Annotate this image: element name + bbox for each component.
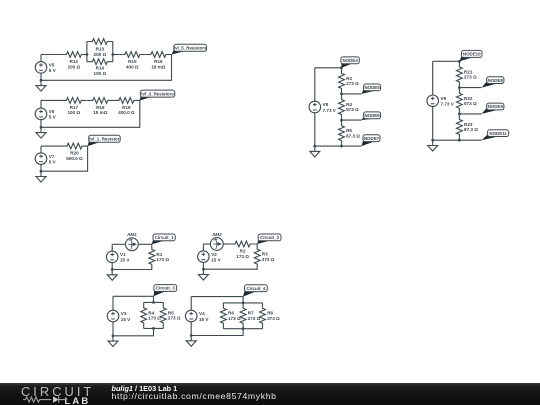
junction NODE5 (340, 93, 343, 96)
wire to NODE5 flag (342, 93, 362, 95)
svg-text:V2: V2 (211, 252, 217, 257)
svg-text:R2: R2 (240, 249, 246, 254)
resistor R13 (87, 39, 113, 57)
resistor R5 (Circuit_3) (160, 302, 180, 328)
junction V9 bottom (431, 139, 434, 142)
wire circuit 4 return (191, 329, 243, 336)
svg-text:100 Ω: 100 Ω (94, 71, 107, 76)
svg-text:NODE6: NODE6 (364, 113, 380, 118)
CircuitLab logo wordmark (21, 384, 94, 399)
svg-text:373 Ω: 373 Ω (262, 257, 275, 262)
svg-text:87.3 Ω: 87.3 Ω (464, 127, 478, 132)
ground circuit 1 (36, 80, 46, 91)
node split R13/R14 (86, 53, 89, 56)
ground right ladder (428, 140, 438, 151)
svg-text:7.73 V: 7.73 V (323, 108, 337, 113)
resistor R4 (339, 94, 359, 120)
voltage source V5 (35, 62, 56, 74)
wire R2 to corner (256, 243, 258, 245)
wire V1 leads (111, 244, 113, 269)
node flag Circuit_2 (257, 234, 281, 244)
resistor R2 (230, 241, 256, 259)
wire V8 bottom rail (315, 145, 362, 147)
resistor R5 (339, 120, 361, 146)
wire block to R15 (113, 54, 119, 56)
node flag NODE11 (482, 130, 509, 141)
svg-text:5 V: 5 V (49, 115, 57, 120)
svg-text:Circuit_2: Circuit_2 (260, 235, 280, 240)
resistor R21 (457, 61, 477, 87)
wire return right side circuit 3 (41, 146, 88, 171)
wire V8 top rail (315, 67, 342, 69)
footer title text (112, 384, 178, 393)
ground Circuit_1 (107, 270, 117, 281)
svg-text:Circuit_3: Circuit_3 (156, 286, 176, 291)
resistor R22 (457, 88, 477, 114)
svg-text:V6: V6 (49, 109, 55, 114)
wire V7 top to R20 (41, 145, 61, 147)
wire circuit 1 return (112, 244, 152, 270)
ground circuit 3 (36, 171, 46, 182)
svg-text:5 V: 5 V (49, 68, 57, 73)
resistor R4 (Circuit_3) (141, 302, 161, 328)
junction V5 bottom (40, 79, 43, 82)
svg-text:18 mΩ: 18 mΩ (151, 64, 165, 69)
node flag NODE6 (362, 112, 381, 120)
svg-text:NODE5: NODE5 (364, 85, 380, 90)
svg-text:NODE9: NODE9 (488, 104, 504, 109)
svg-text:NODE11: NODE11 (489, 131, 507, 136)
svg-text:15 V: 15 V (211, 257, 221, 262)
svg-text:V3: V3 (121, 311, 127, 316)
svg-text:V9: V9 (441, 96, 447, 101)
svg-text:15 V: 15 V (120, 258, 130, 263)
node flag NODE10 (459, 50, 482, 61)
resistor R7 (240, 303, 260, 329)
junction V7 bottom (40, 170, 43, 173)
wire V6 top to R17 (41, 99, 61, 101)
svg-text:273 Ω: 273 Ω (248, 316, 261, 321)
wire V6 leads (40, 100, 42, 127)
node flag lvl_5_Resistors (172, 44, 208, 54)
wire parallel block verticals (87, 42, 113, 62)
resistor R3 (339, 68, 359, 94)
junction NODE10 (458, 60, 461, 63)
wire return right side circuit 2 (41, 100, 140, 127)
node flag NODE5 (362, 84, 381, 94)
svg-text:NODE10: NODE10 (463, 52, 481, 57)
resistor R6 (221, 303, 241, 329)
svg-text:AM1: AM1 (126, 232, 137, 237)
svg-text:R18: R18 (96, 105, 105, 110)
junction V8 bottom (313, 145, 316, 148)
wire V4 top rail (191, 297, 243, 303)
svg-text:273 Ω: 273 Ω (464, 75, 477, 80)
wire V5 leads (40, 55, 42, 81)
wire to NODE8 flag (459, 87, 481, 89)
resistor R16 (145, 52, 171, 70)
svg-text:400.0 Ω: 400.0 Ω (118, 110, 135, 115)
resistor R12 (61, 52, 87, 70)
svg-text:V4: V4 (199, 311, 205, 316)
ground Circuit_2 (198, 269, 208, 280)
svg-text:NODE7: NODE7 (364, 136, 380, 141)
svg-text:R12: R12 (70, 59, 79, 64)
node flag lvl_3_Resistors (140, 90, 175, 100)
svg-text:NODE4: NODE4 (342, 58, 358, 63)
junction bracket top C3 (152, 301, 155, 304)
svg-text:573 Ω: 573 Ω (346, 107, 359, 112)
node flag NODE8 (482, 77, 504, 88)
svg-text:NODE8: NODE8 (488, 78, 504, 83)
wire V9 leads (432, 61, 434, 140)
ground Circuit_3 (108, 336, 118, 347)
node flag NODE7 (362, 135, 381, 146)
ground Circuit_4 (186, 336, 196, 347)
svg-text:87.3 Ω: 87.3 Ω (346, 133, 360, 138)
junction V3 bottom (112, 334, 115, 337)
svg-text:lvl_5_Resistors: lvl_5_Resistors (174, 45, 207, 50)
wire circuit 2 return (203, 244, 257, 270)
node flag NODE4 (341, 57, 359, 68)
wire R12 to parallel block (86, 54, 88, 56)
resistor R20 (61, 143, 87, 161)
svg-text:R17: R17 (70, 105, 79, 110)
svg-text:500.0 Ω: 500.0 Ω (66, 156, 83, 161)
node flag lvl_1_Resistor (88, 135, 121, 146)
wire V2 leads (202, 244, 204, 269)
wire circuit 3 return (113, 328, 154, 335)
resistor R15 (119, 52, 145, 70)
svg-text:lvl_3_Resistors: lvl_3_Resistors (141, 91, 174, 96)
svg-text:173 Ω: 173 Ω (156, 257, 169, 262)
voltage source V6 (35, 108, 56, 120)
svg-text:173 Ω: 173 Ω (236, 254, 249, 259)
svg-text:173 Ω: 173 Ω (148, 316, 161, 321)
svg-text:V7: V7 (49, 154, 55, 159)
svg-text:15 V: 15 V (121, 317, 131, 322)
svg-text:V1: V1 (120, 252, 126, 257)
wire V9 top rail (433, 60, 460, 62)
wire return right side circuit 1 (41, 55, 172, 81)
svg-text:V8: V8 (323, 102, 329, 107)
wire V2 top to AM2 (203, 243, 210, 245)
wire AM1 to corner (138, 243, 151, 245)
resistor R18 (87, 98, 113, 116)
voltage source V2 (198, 251, 222, 263)
svg-text:R20: R20 (70, 151, 79, 156)
resistor R8 (260, 303, 280, 329)
svg-text:R19: R19 (122, 105, 131, 110)
junction V6 bottom (40, 126, 43, 129)
voltage source V9 (427, 95, 455, 107)
voltage source V3 (107, 310, 131, 322)
node flag NODE9 (482, 103, 504, 114)
svg-text:573 Ω: 573 Ω (464, 101, 477, 106)
svg-text:100 Ω: 100 Ω (68, 64, 81, 69)
resistor R23 (457, 114, 479, 140)
voltage source V1 (106, 251, 130, 263)
svg-text:400 Ω: 400 Ω (126, 64, 139, 69)
svg-text:R14: R14 (96, 66, 105, 71)
resistor R3 (Circuit_2) (254, 244, 274, 270)
junction NODE9 (458, 113, 461, 116)
node flag Circuit_1 (152, 234, 175, 244)
svg-text:R13: R13 (96, 46, 105, 51)
svg-text:15 V: 15 V (199, 317, 209, 322)
ammeter AM1 (125, 232, 138, 251)
footer bar (0, 383, 540, 405)
wire V7 leads (40, 146, 42, 171)
wire V8 leads (314, 68, 316, 146)
svg-text:R16: R16 (154, 59, 163, 64)
junction V4 bottom (190, 334, 193, 337)
svg-text:R15: R15 (128, 59, 137, 64)
wire V3 leads (112, 296, 114, 336)
svg-text:Circuit_1: Circuit_1 (155, 235, 175, 240)
svg-text:5 V: 5 V (49, 159, 57, 164)
svg-text:AM2: AM2 (211, 232, 222, 237)
svg-text:100 Ω: 100 Ω (67, 110, 80, 115)
wire parallel brackets circuit 3 (144, 302, 164, 328)
junction NODE6 (340, 119, 343, 122)
wire V5 top to R12 (41, 54, 61, 56)
wire V4 leads (190, 297, 192, 336)
node merge R13/R14 (111, 53, 114, 56)
svg-text:173 Ω: 173 Ω (228, 316, 241, 321)
resistor R1 (149, 244, 169, 270)
junction bracket top C4 (242, 302, 245, 305)
ground circuit 2 (36, 127, 46, 138)
ammeter AM2 (210, 232, 223, 251)
resistor R14 (87, 59, 113, 76)
svg-text:V5: V5 (49, 63, 55, 68)
resistor R17 (61, 98, 87, 116)
wire parallel brackets circuit 4 (223, 303, 262, 329)
junction bracket bottom C3 (152, 327, 155, 330)
svg-text:273 Ω: 273 Ω (346, 81, 359, 86)
node flag Circuit_4 (243, 285, 267, 297)
junction NODE4 (340, 66, 343, 69)
footer url text (112, 391, 277, 401)
wire AM2 to R2 (223, 243, 229, 245)
resistor R19 (113, 98, 139, 116)
ground middle ladder (310, 146, 320, 157)
junction bracket bottom C4 (242, 327, 245, 330)
junction NODE11 (458, 139, 461, 142)
junction NODE7 (340, 145, 343, 148)
svg-text:273 Ω: 273 Ω (168, 316, 181, 321)
wire V9 bottom rail (433, 139, 482, 141)
node flag Circuit_3 (154, 285, 177, 297)
junction NODE8 (458, 86, 461, 89)
svg-text:7.73 V: 7.73 V (441, 102, 455, 107)
svg-text:200 Ω: 200 Ω (94, 52, 107, 57)
voltage source V4 (185, 310, 209, 322)
svg-text:15 mΩ: 15 mΩ (93, 110, 107, 115)
svg-text:lvl_1_Resistor: lvl_1_Resistor (89, 136, 119, 141)
CircuitLab logo resistor-diode glyph (0, 383, 70, 405)
junction V2 bottom (202, 268, 205, 271)
svg-text:373 Ω: 373 Ω (267, 316, 280, 321)
junction V1 bottom (111, 268, 114, 271)
wire V3 top rail (113, 296, 154, 302)
wire to NODE9 flag (459, 113, 481, 115)
voltage source V7 (35, 153, 56, 165)
wire V1 top to AM1 (112, 243, 125, 245)
svg-text:Circuit_4: Circuit_4 (246, 286, 266, 291)
voltage source V8 (309, 101, 337, 113)
wire to NODE6 flag (342, 119, 362, 121)
